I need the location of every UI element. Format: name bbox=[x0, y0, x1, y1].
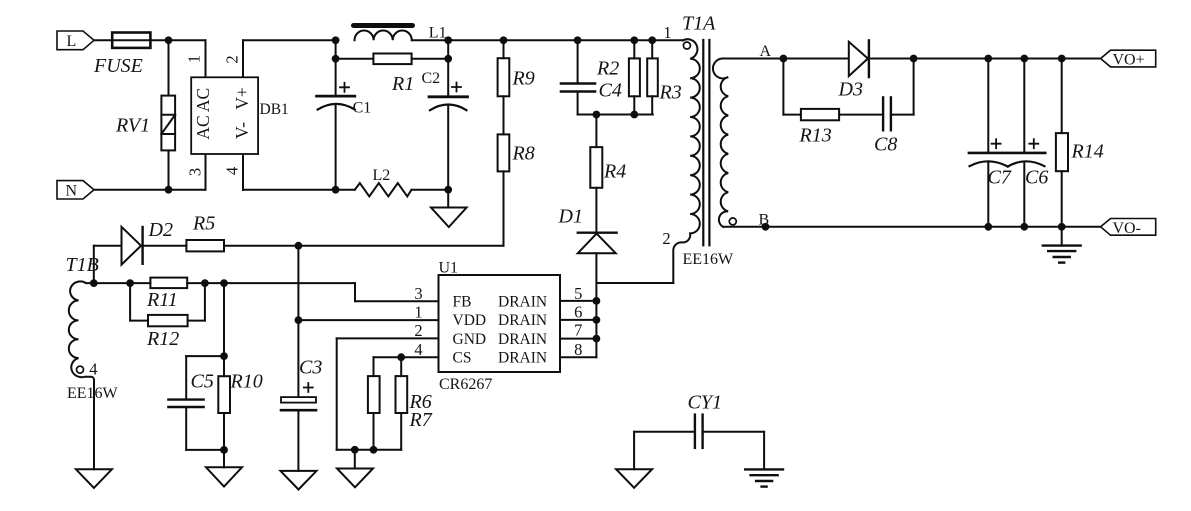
svg-text:R7: R7 bbox=[409, 409, 433, 431]
wire: secondary B line bbox=[723, 226, 1101, 228]
node B bbox=[759, 211, 770, 230]
terminal N bbox=[57, 181, 94, 200]
svg-text:DRAIN: DRAIN bbox=[498, 293, 547, 310]
svg-text:R4: R4 bbox=[603, 161, 626, 183]
svg-text:R2: R2 bbox=[596, 57, 619, 79]
capacitor C8 bbox=[874, 59, 914, 156]
svg-text:GND: GND bbox=[453, 331, 487, 348]
resistor R13 bbox=[783, 59, 883, 147]
capacitor C5 bbox=[168, 356, 224, 450]
resistor R1 bbox=[336, 54, 449, 95]
node: R14 bottom bbox=[1058, 223, 1066, 231]
node: VDD branch on R5 line bbox=[295, 242, 303, 250]
node: snubber C4 top bbox=[574, 36, 582, 44]
wire: CS net bbox=[374, 357, 439, 376]
node: R4 top junction bbox=[593, 111, 601, 119]
ground: C3 bbox=[281, 471, 317, 490]
svg-text:RV1: RV1 bbox=[115, 115, 150, 137]
resistor R9 bbox=[498, 40, 535, 96]
transformer T1A secondary winding bbox=[713, 59, 736, 227]
resistor R12 bbox=[130, 283, 205, 350]
wire: top bus C2 to transformer bbox=[412, 39, 684, 41]
wire: snubber bottom bus bbox=[578, 114, 653, 116]
capacitor C6 bbox=[1008, 59, 1049, 227]
diode D3 bbox=[838, 40, 914, 100]
wire: FB net bbox=[94, 283, 439, 301]
ground: CY1 left bbox=[616, 432, 652, 488]
svg-text:1: 1 bbox=[663, 23, 671, 42]
node: R3 top bbox=[648, 36, 656, 44]
wire: pin 6 bbox=[560, 319, 596, 321]
svg-text:R1: R1 bbox=[391, 73, 414, 95]
node: C6 top bbox=[1020, 55, 1028, 63]
wire: drain bus to transformer pin2 bbox=[596, 282, 673, 284]
svg-text:1: 1 bbox=[414, 303, 422, 322]
node: pin 6 bus bbox=[593, 316, 601, 324]
svg-text:C4: C4 bbox=[599, 80, 622, 102]
varistor RV1 bbox=[115, 40, 175, 189]
terminal VO- bbox=[1101, 219, 1156, 237]
svg-text:1: 1 bbox=[185, 55, 204, 63]
resistor R8 bbox=[498, 96, 535, 245]
svg-text:L1: L1 bbox=[429, 25, 447, 42]
svg-text:AC: AC bbox=[193, 88, 213, 112]
transformer core bbox=[703, 40, 709, 245]
terminal L bbox=[57, 31, 94, 50]
svg-text:4: 4 bbox=[89, 359, 97, 378]
wire: GND net bbox=[337, 338, 439, 449]
node: C1 top bbox=[332, 36, 340, 44]
node: R11 left bbox=[126, 279, 134, 287]
capacitor C7 bbox=[969, 59, 1045, 227]
resistor R14 bbox=[1056, 59, 1104, 227]
earth ground: CY1 right bbox=[745, 432, 783, 487]
svg-text:U1: U1 bbox=[439, 260, 459, 277]
svg-text:2: 2 bbox=[662, 229, 670, 248]
resistor R10 bbox=[218, 356, 262, 450]
resistor R11 bbox=[146, 278, 187, 311]
svg-text:DRAIN: DRAIN bbox=[498, 331, 547, 348]
svg-text:VO+: VO+ bbox=[1113, 52, 1145, 69]
node: C5 top split bbox=[220, 352, 228, 360]
inductor L1 bbox=[354, 25, 447, 42]
resistor R7 bbox=[396, 357, 433, 450]
svg-text:V-: V- bbox=[232, 122, 252, 139]
svg-text:R9: R9 bbox=[512, 68, 535, 90]
svg-text:CR6267: CR6267 bbox=[439, 376, 492, 393]
node: R14 top bbox=[1058, 55, 1066, 63]
svg-text:R8: R8 bbox=[512, 143, 535, 165]
transformer winding T1B bbox=[66, 254, 119, 402]
diode D2 bbox=[94, 219, 187, 283]
svg-text:A: A bbox=[760, 43, 772, 60]
IC U1 CR6267 bbox=[439, 260, 561, 394]
svg-text:C1: C1 bbox=[353, 99, 372, 116]
svg-text:FUSE: FUSE bbox=[93, 55, 143, 77]
svg-text:VDD: VDD bbox=[453, 312, 487, 329]
node: R1 right bbox=[444, 55, 452, 63]
svg-text:2: 2 bbox=[414, 321, 422, 340]
svg-text:2: 2 bbox=[223, 55, 242, 63]
node: C7 top bbox=[984, 55, 992, 63]
svg-text:C5: C5 bbox=[191, 371, 214, 393]
wire: pin 5 bbox=[560, 300, 596, 302]
node: R6 bottom bbox=[370, 446, 378, 454]
node: R7 top bbox=[397, 353, 405, 361]
svg-text:R5: R5 bbox=[192, 212, 215, 234]
svg-text:C8: C8 bbox=[874, 134, 897, 156]
node: C6 bottom bbox=[1020, 223, 1028, 231]
svg-text:C2: C2 bbox=[422, 70, 441, 87]
resistor R6 bbox=[368, 376, 432, 450]
svg-text:T1A: T1A bbox=[682, 13, 716, 35]
svg-text:8: 8 bbox=[574, 340, 582, 359]
svg-text:R12: R12 bbox=[146, 328, 179, 350]
svg-text:R3: R3 bbox=[659, 82, 682, 104]
transformer T1A primary winding bbox=[662, 13, 734, 284]
node: ground stem bbox=[351, 446, 359, 454]
wire: L2 to C2 bottom bbox=[412, 189, 449, 191]
node: C5 branch bbox=[220, 279, 228, 287]
wire: pin 7 bbox=[560, 338, 596, 340]
node: C7 bottom bbox=[984, 223, 992, 231]
svg-text:L2: L2 bbox=[373, 167, 391, 184]
svg-text:R10: R10 bbox=[230, 371, 263, 393]
node: R2 bottom bbox=[630, 111, 638, 119]
node: R1 left bbox=[332, 55, 340, 63]
terminal VO+ bbox=[1101, 50, 1156, 68]
resistor R5 bbox=[186, 212, 503, 251]
node: R2 top bbox=[630, 36, 638, 44]
diode D1 bbox=[558, 206, 617, 358]
capacitor C2 bbox=[422, 40, 468, 189]
svg-text:L: L bbox=[67, 33, 77, 50]
wire: C5-R10 branch bbox=[223, 283, 225, 356]
fuse FUSE bbox=[93, 33, 150, 77]
node: C2 bottom bbox=[444, 186, 452, 194]
node: L-RV1 junction bbox=[165, 36, 173, 44]
svg-text:T1B: T1B bbox=[66, 254, 99, 276]
node: C1 bottom bbox=[332, 186, 340, 194]
svg-text:R13: R13 bbox=[799, 125, 832, 147]
svg-text:C3: C3 bbox=[299, 357, 322, 379]
capacitor C3 bbox=[281, 357, 322, 471]
node: R9 top bbox=[500, 36, 508, 44]
svg-text:3: 3 bbox=[186, 168, 205, 176]
svg-text:3: 3 bbox=[414, 284, 422, 303]
capacitor CY1 bbox=[634, 392, 764, 448]
node: C5 bottom bbox=[220, 446, 228, 454]
node: R11 right bbox=[201, 279, 209, 287]
ground: C5-R10 bbox=[206, 450, 242, 487]
svg-text:R14: R14 bbox=[1071, 141, 1104, 163]
bridge rectifier DB1 bbox=[185, 40, 289, 190]
wire: A line to VO+ bbox=[914, 58, 1101, 60]
svg-text:4: 4 bbox=[223, 167, 242, 175]
svg-text:D2: D2 bbox=[148, 219, 173, 241]
ground: CS sense bbox=[337, 450, 373, 488]
node: D3 cathode junction bbox=[910, 55, 918, 63]
earth ground: output bbox=[1043, 227, 1081, 263]
inductor L2 bbox=[355, 167, 412, 196]
svg-text:DB1: DB1 bbox=[260, 101, 289, 118]
node: C2 top bbox=[444, 36, 452, 44]
svg-text:V+: V+ bbox=[232, 87, 252, 110]
resistor R2 bbox=[596, 40, 640, 114]
node: T1B top bbox=[90, 279, 98, 287]
wire: secondary A line bbox=[722, 58, 849, 60]
svg-text:FB: FB bbox=[453, 293, 472, 310]
wire N to DB1 pin3 bbox=[94, 189, 206, 191]
capacitor C4 bbox=[561, 40, 622, 114]
node: N-RV1 junction bbox=[165, 186, 173, 194]
svg-text:DRAIN: DRAIN bbox=[498, 312, 547, 329]
node: pin 5 bus bbox=[593, 297, 601, 305]
svg-text:N: N bbox=[66, 183, 78, 200]
svg-text:DRAIN: DRAIN bbox=[498, 349, 547, 366]
node: pin 7 bus bbox=[593, 335, 601, 343]
svg-text:CS: CS bbox=[453, 349, 472, 366]
svg-text:7: 7 bbox=[574, 321, 582, 340]
svg-text:D3: D3 bbox=[838, 79, 863, 101]
svg-text:C6: C6 bbox=[1025, 167, 1048, 189]
svg-text:6: 6 bbox=[574, 302, 582, 321]
wire: T1B to ground bbox=[93, 382, 95, 469]
svg-text:R11: R11 bbox=[146, 289, 178, 311]
svg-text:AC: AC bbox=[193, 115, 213, 139]
svg-text:VO-: VO- bbox=[1113, 220, 1141, 237]
wire: DB1 pin2 to C1 node bbox=[243, 39, 336, 41]
wire: DC- bus DB1 pin4 to L2 bbox=[243, 189, 355, 191]
ground: primary bulk bbox=[431, 190, 467, 227]
wire L to junction bbox=[94, 39, 206, 41]
svg-text:EE16W: EE16W bbox=[67, 385, 119, 402]
node: VDD pin junction bbox=[295, 316, 303, 324]
wire: pin 8 bbox=[560, 356, 596, 358]
node A bbox=[760, 43, 788, 62]
svg-text:4: 4 bbox=[414, 340, 422, 359]
capacitor C1 bbox=[317, 40, 372, 189]
svg-text:CY1: CY1 bbox=[688, 392, 722, 414]
resistor R3 bbox=[647, 40, 682, 114]
svg-text:C7: C7 bbox=[988, 167, 1012, 189]
ground: T1B bbox=[76, 469, 112, 488]
resistor R4 bbox=[590, 115, 626, 233]
svg-text:D1: D1 bbox=[558, 206, 583, 228]
wire: VDD net bbox=[298, 246, 438, 397]
svg-text:EE16W: EE16W bbox=[683, 251, 735, 268]
